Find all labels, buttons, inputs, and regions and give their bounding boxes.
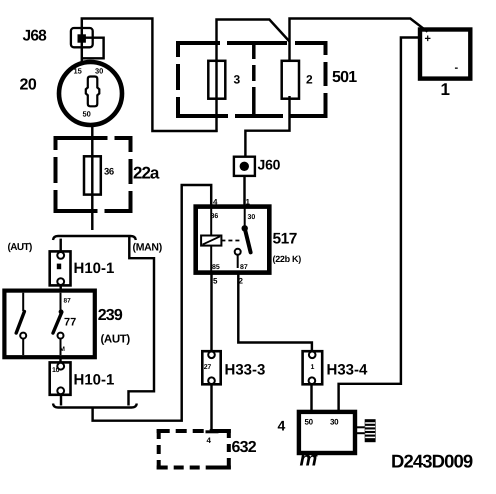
svg-text:85: 85 xyxy=(212,264,220,271)
svg-text:H33-4: H33-4 xyxy=(327,362,369,379)
svg-text:J60: J60 xyxy=(258,157,281,173)
svg-text:27: 27 xyxy=(204,364,212,371)
svg-text:15: 15 xyxy=(74,67,82,76)
svg-text:J68: J68 xyxy=(23,28,48,45)
svg-text:517: 517 xyxy=(273,231,297,248)
svg-text:22a: 22a xyxy=(133,164,160,183)
svg-text:501: 501 xyxy=(332,69,357,86)
svg-text:4: 4 xyxy=(207,436,212,445)
svg-text:2: 2 xyxy=(239,277,244,286)
svg-text:H10-1: H10-1 xyxy=(74,260,115,277)
svg-text:1: 1 xyxy=(311,364,315,371)
svg-text:77: 77 xyxy=(64,316,76,328)
svg-text:m: m xyxy=(300,449,318,471)
svg-text:87: 87 xyxy=(240,264,248,271)
svg-text:30: 30 xyxy=(248,214,256,221)
svg-text:+: + xyxy=(425,33,431,45)
svg-text:H33-3: H33-3 xyxy=(225,362,266,379)
svg-text:1: 1 xyxy=(441,80,450,99)
svg-text:1: 1 xyxy=(246,198,251,207)
svg-text:(22b K): (22b K) xyxy=(273,254,302,264)
svg-text:36: 36 xyxy=(104,167,114,178)
svg-text:4: 4 xyxy=(278,418,286,434)
svg-text:H10-1: H10-1 xyxy=(74,372,115,389)
svg-text:2: 2 xyxy=(306,73,313,87)
svg-text:10: 10 xyxy=(52,367,60,374)
svg-text:239: 239 xyxy=(98,307,123,324)
svg-text:(AUT): (AUT) xyxy=(101,334,131,346)
svg-text:5: 5 xyxy=(213,277,218,286)
svg-text:D243D009: D243D009 xyxy=(391,451,473,472)
svg-text:30: 30 xyxy=(330,418,339,427)
svg-text:87: 87 xyxy=(64,298,72,305)
svg-text:-: - xyxy=(455,62,459,74)
svg-text:M: M xyxy=(60,346,65,353)
svg-text:50: 50 xyxy=(83,110,91,119)
svg-text:4: 4 xyxy=(213,198,218,207)
svg-text:3: 3 xyxy=(234,73,241,87)
svg-text:50: 50 xyxy=(305,418,314,427)
svg-text:(AUT): (AUT) xyxy=(8,242,32,253)
svg-text:(MAN): (MAN) xyxy=(133,242,162,254)
svg-text:20: 20 xyxy=(20,77,37,94)
svg-text:632: 632 xyxy=(232,439,257,456)
svg-text:30: 30 xyxy=(95,67,103,76)
